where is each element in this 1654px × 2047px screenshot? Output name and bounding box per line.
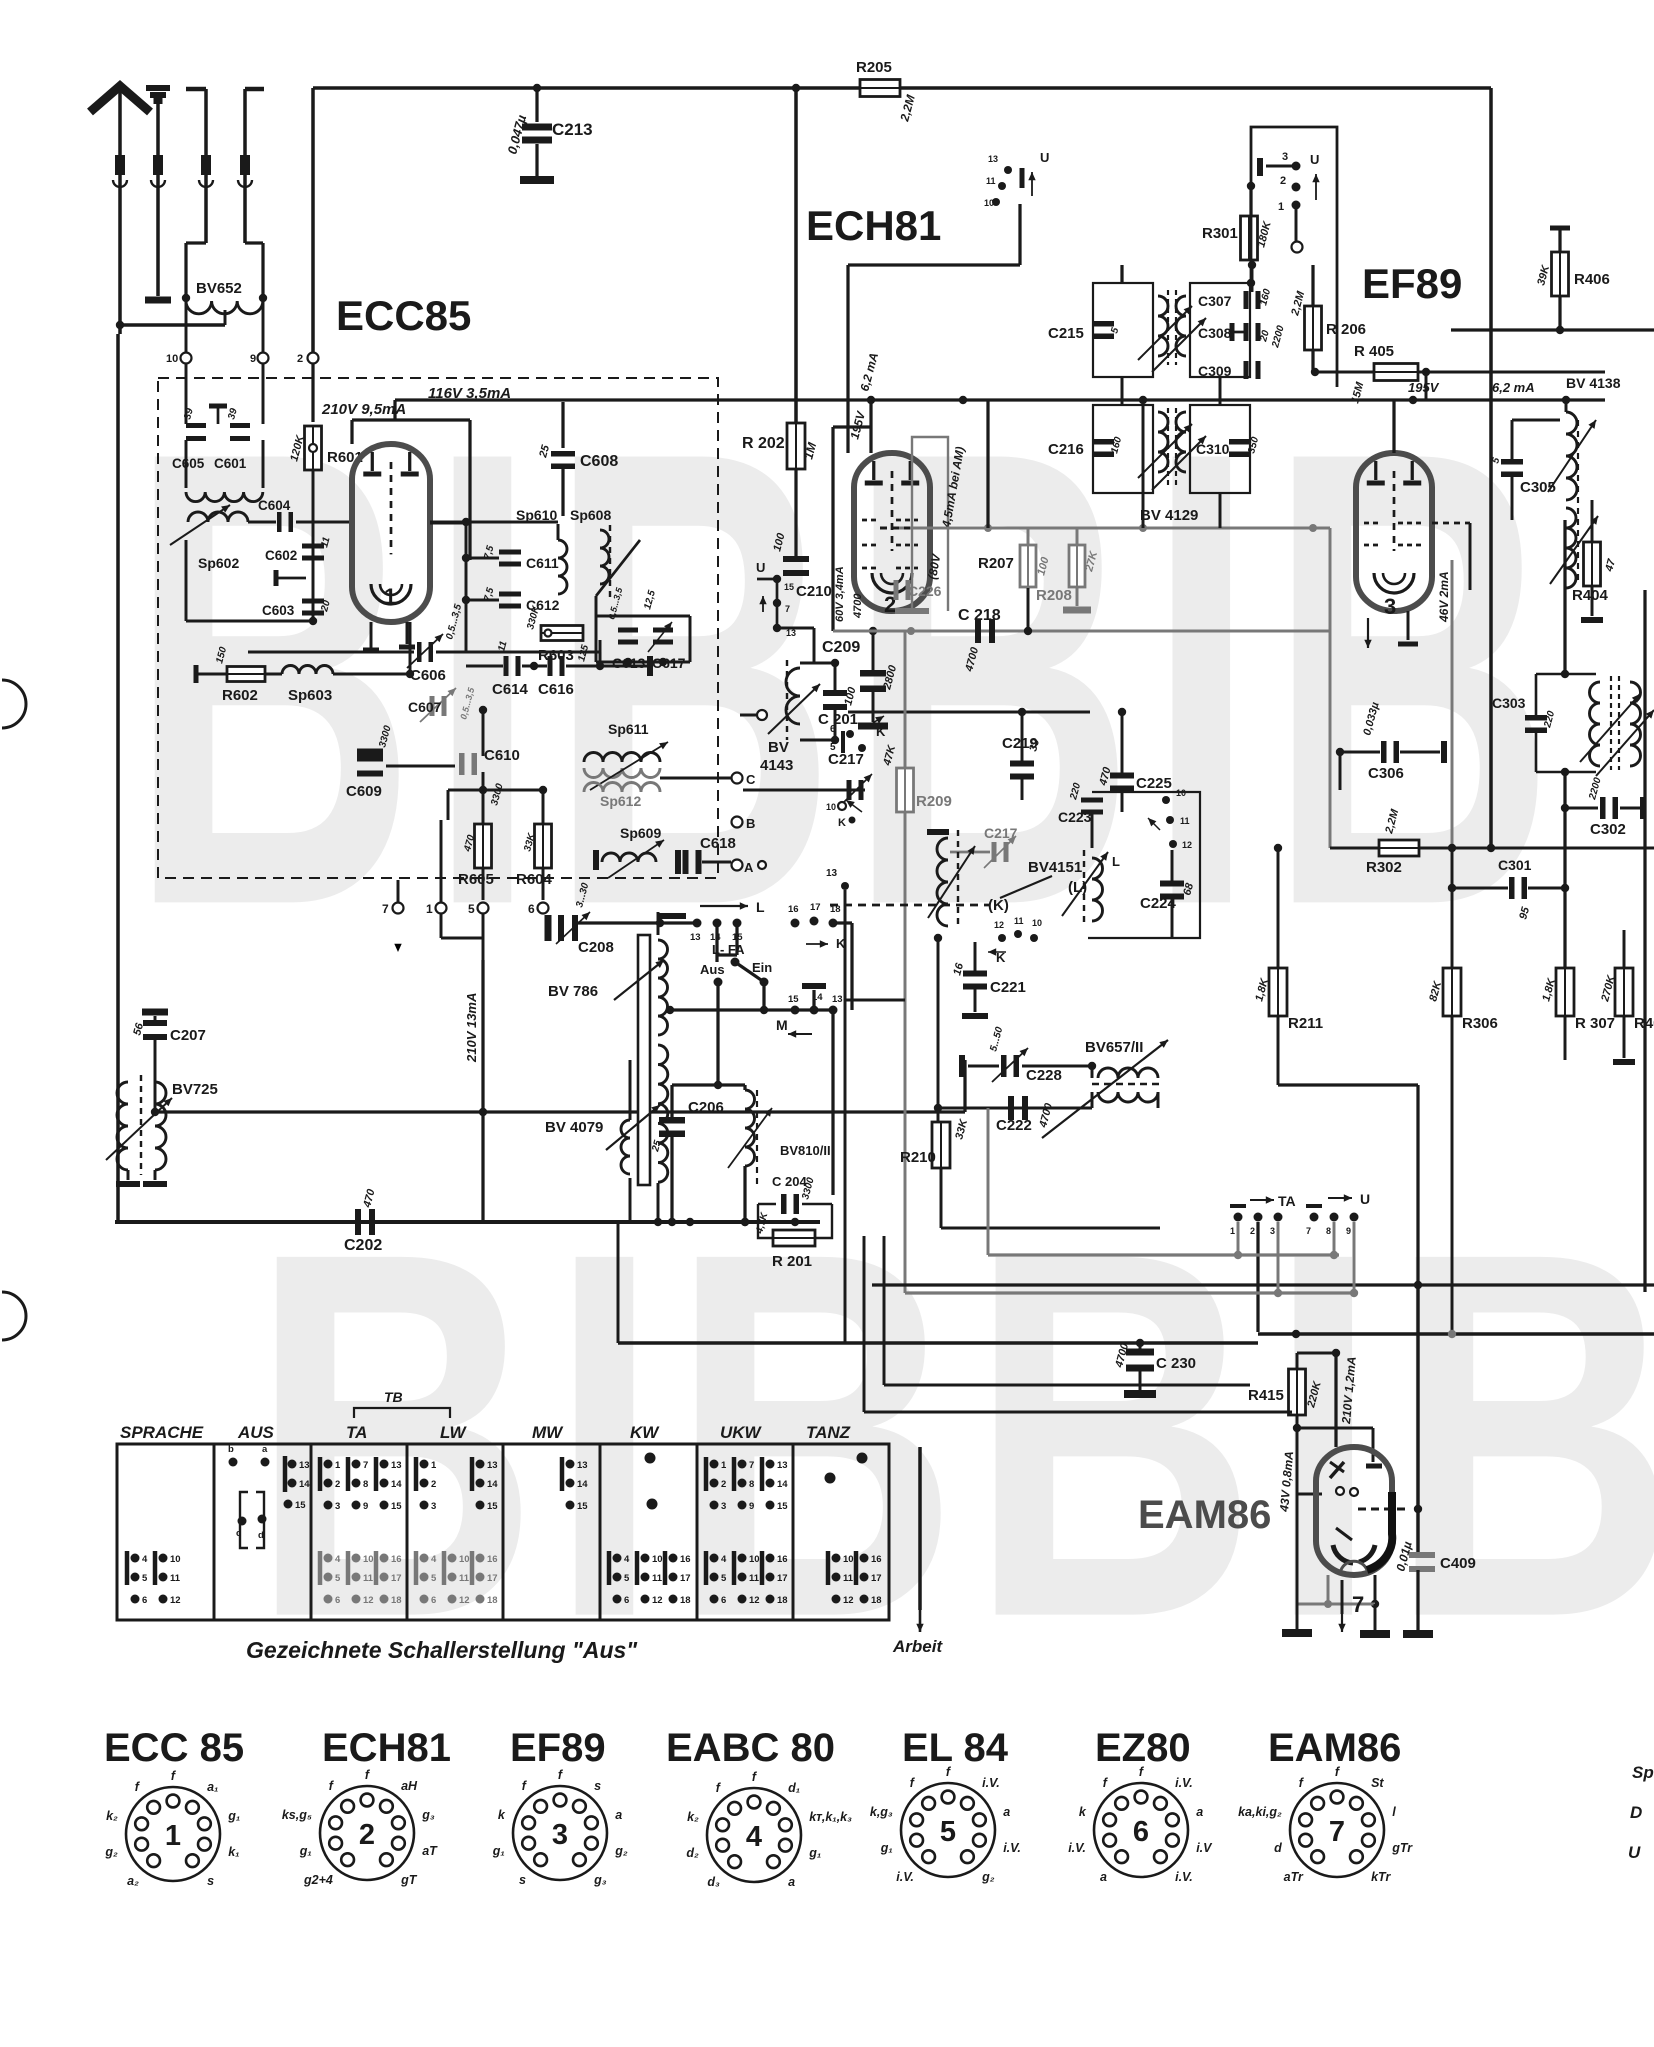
svg-text:15: 15 xyxy=(788,994,799,1005)
svg-text:8: 8 xyxy=(749,1479,754,1490)
resistor R202 xyxy=(787,423,805,469)
tube pinout ECC 85 xyxy=(104,1726,244,1888)
resistor R206 xyxy=(1311,265,1314,306)
svg-text:k₂: k₂ xyxy=(687,1810,699,1824)
svg-text:C609: C609 xyxy=(346,783,382,800)
svg-text:R210: R210 xyxy=(900,1149,936,1166)
svg-text:10: 10 xyxy=(826,802,836,812)
svg-text:St: St xyxy=(1371,1776,1384,1790)
tube EAM86 xyxy=(1316,1447,1392,1575)
svg-text:R605: R605 xyxy=(458,871,494,888)
svg-text:3: 3 xyxy=(431,1501,436,1512)
svg-text:3: 3 xyxy=(721,1501,726,1512)
socket pin 6 xyxy=(538,903,549,914)
svg-text:C 201: C 201 xyxy=(818,711,858,728)
svg-text:13: 13 xyxy=(299,1460,310,1471)
terminal A xyxy=(732,860,743,871)
capacitor C611 xyxy=(499,550,521,567)
svg-text:C210: C210 xyxy=(796,583,832,600)
svg-text:5: 5 xyxy=(431,1573,437,1584)
capacitor C618 xyxy=(683,850,702,874)
svg-text:i.V.: i.V. xyxy=(1003,1841,1021,1855)
svg-text:C225: C225 xyxy=(1136,775,1172,792)
wire gray bus 1293 xyxy=(905,1291,1354,1294)
svg-text:11: 11 xyxy=(1180,816,1190,826)
svg-text:11: 11 xyxy=(749,1573,760,1584)
svg-text:d₂: d₂ xyxy=(686,1846,699,1860)
svg-text:6: 6 xyxy=(721,1595,726,1606)
svg-text:11: 11 xyxy=(1014,916,1024,926)
coil BV4079 primary xyxy=(621,1120,630,1174)
wire C230 bus xyxy=(618,1341,1160,1345)
svg-text:R 206: R 206 xyxy=(1326,321,1366,338)
svg-text:EF89: EF89 xyxy=(510,1726,606,1770)
svg-text:EAM86: EAM86 xyxy=(1138,1493,1271,1537)
capacitor C215 xyxy=(1092,321,1114,339)
svg-text:C409: C409 xyxy=(1440,1555,1476,1572)
wire tube3 cathode xyxy=(1407,611,1410,640)
svg-text:Sp608: Sp608 xyxy=(570,507,611,523)
svg-text:Sp: Sp xyxy=(1632,1763,1654,1782)
svg-text:18: 18 xyxy=(777,1595,788,1606)
svg-text:13: 13 xyxy=(391,1460,402,1471)
svg-text:AUS: AUS xyxy=(237,1423,275,1442)
svg-text:4143: 4143 xyxy=(760,757,793,774)
svg-text:A: A xyxy=(744,860,754,875)
svg-text:C202: C202 xyxy=(344,1237,382,1254)
svg-text:C610: C610 xyxy=(484,747,520,764)
svg-text:C309: C309 xyxy=(1198,363,1232,379)
svg-text:13: 13 xyxy=(577,1460,588,1471)
wire tank bottom xyxy=(1091,1092,1094,1108)
svg-text:9: 9 xyxy=(749,1501,754,1512)
terminal C xyxy=(732,773,743,784)
svg-text:s: s xyxy=(207,1874,214,1888)
svg-text:17: 17 xyxy=(680,1573,691,1584)
svg-text:2: 2 xyxy=(297,353,303,365)
wire switch drops xyxy=(1237,1222,1240,1255)
svg-text:R306: R306 xyxy=(1462,1015,1498,1032)
svg-text:13: 13 xyxy=(487,1460,498,1471)
AUS contacts xyxy=(229,1458,238,1467)
coil Sp612 xyxy=(584,783,660,793)
capacitor C617 xyxy=(653,628,673,645)
svg-text:C301: C301 xyxy=(1498,857,1532,873)
svg-text:1: 1 xyxy=(1278,201,1284,213)
capacitor C310 xyxy=(1229,439,1251,457)
svg-text:ks,g₅: ks,g₅ xyxy=(282,1808,312,1822)
svg-text:4: 4 xyxy=(624,1554,630,1565)
svg-text:C209: C209 xyxy=(822,639,860,656)
wire anode lead xyxy=(1336,1427,1373,1430)
svg-text:12: 12 xyxy=(994,920,1004,930)
svg-text:R211: R211 xyxy=(1288,1015,1323,1032)
svg-text:Aus: Aus xyxy=(700,962,725,977)
svg-text:12: 12 xyxy=(652,1595,663,1606)
wire long output xyxy=(872,1283,1654,1286)
tube pinout EABC 80 xyxy=(666,1726,852,1889)
svg-text:i.V.: i.V. xyxy=(1175,1776,1193,1790)
svg-text:g₂: g₂ xyxy=(104,1845,118,1859)
svg-text:C601: C601 xyxy=(214,456,247,471)
svg-text:g₃: g₃ xyxy=(593,1873,607,1887)
input terminal 4 xyxy=(245,87,264,92)
capacitor C616 xyxy=(548,656,565,676)
svg-text:R301: R301 xyxy=(1202,225,1238,242)
svg-text:a: a xyxy=(1003,1805,1010,1819)
SPRACHE contacts xyxy=(125,1551,130,1585)
switch pins 10 11 12 xyxy=(1162,796,1170,804)
resistor R404 xyxy=(1591,500,1594,542)
svg-text:13: 13 xyxy=(786,628,796,638)
capacitor C603 xyxy=(302,599,324,616)
svg-text:13: 13 xyxy=(988,154,998,164)
svg-text:TB: TB xyxy=(384,1389,403,1405)
svg-text:9: 9 xyxy=(1346,1226,1351,1236)
capacitor C601 xyxy=(230,423,250,441)
capacitor C308 xyxy=(1244,323,1261,341)
svg-text:14: 14 xyxy=(777,1479,788,1490)
svg-text:c: c xyxy=(236,1528,241,1539)
svg-text:R209: R209 xyxy=(916,793,952,810)
wire IF input xyxy=(1120,265,1123,283)
svg-text:11: 11 xyxy=(986,176,996,186)
terminal B xyxy=(732,817,743,828)
switch pins 13 14 15 xyxy=(693,919,702,928)
oscillator coil BV4143 xyxy=(786,668,800,724)
svg-text:9: 9 xyxy=(250,353,256,365)
svg-text:i.V.: i.V. xyxy=(1068,1841,1086,1855)
svg-text:a₁: a₁ xyxy=(207,1780,218,1794)
svg-text:16: 16 xyxy=(788,904,799,915)
svg-text:15: 15 xyxy=(577,1501,588,1512)
svg-text:C228: C228 xyxy=(1026,1067,1062,1084)
wire tube3 top lead xyxy=(1392,400,1395,453)
wire tube3 down arrow xyxy=(1367,618,1369,648)
svg-text:g₁: g₁ xyxy=(227,1809,240,1823)
grid wire dashed tube1 xyxy=(296,521,352,524)
svg-text:R406: R406 xyxy=(1574,271,1610,288)
svg-text:6: 6 xyxy=(142,1595,147,1606)
capacitor C213 xyxy=(533,84,541,92)
svg-text:EZ80: EZ80 xyxy=(1095,1726,1191,1770)
svg-text:11: 11 xyxy=(843,1573,854,1584)
svg-text:UKW: UKW xyxy=(720,1423,763,1442)
wire gray bus 1255 xyxy=(988,1253,1339,1256)
svg-text:C207: C207 xyxy=(170,1027,206,1044)
resistor R601 xyxy=(311,364,314,422)
svg-text:4: 4 xyxy=(721,1554,727,1565)
coil Sp602 xyxy=(188,512,248,522)
capacitor C608 xyxy=(562,402,564,444)
svg-text:M: M xyxy=(776,1017,788,1033)
svg-text:a: a xyxy=(788,1875,795,1889)
svg-text:a₂: a₂ xyxy=(127,1874,139,1888)
svg-text:3: 3 xyxy=(1384,594,1396,619)
svg-text:R 405: R 405 xyxy=(1354,343,1394,360)
svg-text:Sp611: Sp611 xyxy=(608,721,649,737)
resistor R405 xyxy=(1374,364,1418,381)
svg-text:5: 5 xyxy=(830,742,836,753)
svg-text:D: D xyxy=(1630,1803,1642,1822)
svg-text:2: 2 xyxy=(721,1479,726,1490)
svg-text:R205: R205 xyxy=(856,59,892,76)
svg-text:R40: R40 xyxy=(1634,1015,1654,1032)
wire center drop xyxy=(1159,1228,1161,1343)
svg-text:16: 16 xyxy=(871,1554,882,1565)
capacitor C409 xyxy=(1416,1285,1419,1552)
svg-text:10: 10 xyxy=(984,198,994,208)
coil Sp610 winding xyxy=(558,540,567,594)
capacitor C224 xyxy=(1160,881,1184,900)
svg-text:12: 12 xyxy=(1182,840,1192,850)
svg-text:1: 1 xyxy=(384,584,396,609)
svg-text:2: 2 xyxy=(1280,175,1286,187)
svg-text:BV: BV xyxy=(768,739,789,756)
svg-text:10: 10 xyxy=(166,353,178,365)
svg-text:R404: R404 xyxy=(1572,587,1609,604)
svg-text:7: 7 xyxy=(1352,1592,1364,1617)
svg-text:Sp602: Sp602 xyxy=(198,555,239,571)
wire mid horizontal bus xyxy=(155,1110,965,1113)
svg-text:C303: C303 xyxy=(1492,695,1526,711)
svg-text:k₁: k₁ xyxy=(228,1845,239,1859)
svg-text:12: 12 xyxy=(749,1595,760,1606)
svg-text:C 204: C 204 xyxy=(772,1174,807,1189)
svg-text:16: 16 xyxy=(777,1554,788,1565)
svg-text:d: d xyxy=(1274,1841,1282,1855)
dashed screen box ECC85 xyxy=(158,378,718,878)
switch arrow L xyxy=(658,913,686,919)
svg-text:R302: R302 xyxy=(1366,859,1402,876)
switch M row xyxy=(670,1008,833,1011)
svg-text:1: 1 xyxy=(431,1460,437,1471)
svg-text:U: U xyxy=(1040,150,1049,165)
svg-text:195V: 195V xyxy=(1408,380,1440,395)
svg-text:a: a xyxy=(262,1444,268,1455)
transformer BV652 xyxy=(184,243,187,298)
capacitor C309 xyxy=(1244,361,1261,379)
svg-text:7: 7 xyxy=(749,1460,754,1471)
resistor R604 xyxy=(542,790,545,824)
svg-text:4: 4 xyxy=(142,1554,148,1565)
svg-text:46V 2mA: 46V 2mA xyxy=(1437,571,1451,623)
svg-text:15: 15 xyxy=(784,582,794,592)
svg-text:14: 14 xyxy=(391,1479,402,1490)
switch pins 16 17 18 xyxy=(791,919,800,928)
svg-text:C221: C221 xyxy=(990,979,1026,996)
svg-text:6: 6 xyxy=(1133,1816,1149,1848)
svg-text:BV 4129: BV 4129 xyxy=(1140,507,1198,524)
UKW contacts xyxy=(704,1457,709,1491)
svg-text:C310: C310 xyxy=(1196,441,1230,457)
svg-text:8: 8 xyxy=(1326,1226,1331,1236)
wire R605 R604 top xyxy=(448,789,543,792)
svg-text:R 201: R 201 xyxy=(772,1253,812,1270)
svg-text:BV 4138: BV 4138 xyxy=(1566,375,1621,391)
svg-text:C226: C226 xyxy=(908,583,942,599)
svg-text:2: 2 xyxy=(431,1479,436,1490)
svg-text:a: a xyxy=(1100,1870,1107,1884)
svg-text:l: l xyxy=(1392,1805,1396,1819)
svg-text:5: 5 xyxy=(468,902,475,916)
L tank frame xyxy=(1088,792,1200,938)
svg-text:g₁: g₁ xyxy=(492,1844,505,1858)
core bar transformer xyxy=(638,935,650,1185)
svg-text:TANZ: TANZ xyxy=(806,1423,851,1442)
svg-text:aH: aH xyxy=(401,1779,418,1793)
svg-text:g2+4: g2+4 xyxy=(303,1873,333,1887)
svg-text:d₁: d₁ xyxy=(788,1781,800,1795)
wire transformer taps xyxy=(657,912,660,935)
wire tube1 heater bars xyxy=(370,622,373,648)
Arbeit arrow xyxy=(918,1447,922,1610)
svg-text:14: 14 xyxy=(487,1479,498,1490)
resistor R602 xyxy=(194,665,199,683)
svg-text:gTr: gTr xyxy=(1391,1841,1413,1855)
svg-text:5: 5 xyxy=(721,1573,727,1584)
svg-text:4700: 4700 xyxy=(852,593,864,619)
wire anode supply EAM86 xyxy=(1334,1353,1337,1447)
coil BV4079 xyxy=(658,1045,668,1182)
resistor R406 xyxy=(1550,226,1570,231)
svg-text:17: 17 xyxy=(810,902,821,913)
svg-text:7: 7 xyxy=(363,1460,368,1471)
IF can lower right box xyxy=(1190,405,1250,493)
wire C614 C616 row xyxy=(466,665,503,668)
svg-text:U: U xyxy=(1628,1843,1641,1862)
svg-text:210V 13mA: 210V 13mA xyxy=(464,993,479,1063)
svg-text:R207: R207 xyxy=(978,555,1014,572)
svg-text:SPRACHE: SPRACHE xyxy=(120,1423,204,1442)
svg-text:1: 1 xyxy=(426,902,433,916)
svg-text:g₁: g₁ xyxy=(299,1844,312,1858)
svg-text:10: 10 xyxy=(459,1554,470,1565)
wire right vertical xyxy=(1643,590,1646,1292)
svg-text:g₂: g₂ xyxy=(614,1844,628,1858)
svg-text:18: 18 xyxy=(487,1595,498,1606)
svg-text:12: 12 xyxy=(363,1595,374,1606)
IF can lower left box xyxy=(1093,405,1153,493)
svg-text:16: 16 xyxy=(391,1554,402,1565)
wire U switch net xyxy=(848,263,1020,266)
watermark row 1 xyxy=(128,317,1566,1040)
switch K pin row2 xyxy=(838,802,846,810)
wire 210V feed down xyxy=(481,960,484,1222)
svg-text:k: k xyxy=(1079,1805,1087,1819)
capacitor C613 xyxy=(618,628,638,645)
svg-text:R604: R604 xyxy=(516,871,553,888)
svg-text:U: U xyxy=(756,560,765,575)
coil output right xyxy=(1590,682,1601,766)
svg-text:BV4151: BV4151 xyxy=(1028,859,1082,876)
svg-text:ka,ki,g₂: ka,ki,g₂ xyxy=(1238,1805,1282,1819)
tube3 grid dashes xyxy=(1364,522,1378,525)
svg-text:7: 7 xyxy=(785,604,790,614)
svg-text:11: 11 xyxy=(459,1573,470,1584)
svg-text:Sp609: Sp609 xyxy=(620,825,661,841)
switch pins row 12 11 10 xyxy=(998,934,1006,942)
svg-text:C: C xyxy=(746,772,756,787)
wire 195V rail xyxy=(867,396,875,404)
svg-text:C 230: C 230 xyxy=(1156,1355,1196,1372)
wire R302 node verticals xyxy=(1563,520,1566,674)
svg-text:k,g₃: k,g₃ xyxy=(870,1805,893,1819)
svg-text:18: 18 xyxy=(871,1595,882,1606)
svg-text:s: s xyxy=(594,1779,601,1793)
svg-text:15: 15 xyxy=(391,1501,402,1512)
svg-text:1: 1 xyxy=(721,1460,727,1471)
svg-text:g₂: g₂ xyxy=(981,1870,995,1884)
coil Sp603 xyxy=(265,673,282,676)
svg-text:BV657/II: BV657/II xyxy=(1085,1039,1143,1056)
svg-text:Sp612: Sp612 xyxy=(600,793,641,809)
resistor R307 xyxy=(1556,968,1574,1016)
svg-text:BV810/II: BV810/II xyxy=(780,1143,831,1158)
svg-text:5: 5 xyxy=(142,1573,148,1584)
svg-text:s: s xyxy=(519,1873,526,1887)
svg-text:Arbeit: Arbeit xyxy=(892,1637,943,1656)
svg-text:5: 5 xyxy=(940,1816,956,1848)
svg-text:18: 18 xyxy=(680,1595,691,1606)
svg-text:10: 10 xyxy=(363,1554,374,1565)
ground stub C602 xyxy=(274,570,279,586)
svg-text:C611: C611 xyxy=(526,555,559,571)
wire tube2 anode frame xyxy=(831,427,834,631)
capacitor C201 xyxy=(823,690,847,710)
capacitor C606 variable xyxy=(417,642,433,662)
svg-text:13: 13 xyxy=(832,994,843,1005)
socket pin 7 xyxy=(393,903,404,914)
wire bottom rail xyxy=(115,1220,820,1224)
wire C605 leads xyxy=(185,364,188,424)
wire tube1 grid dashed xyxy=(430,522,470,525)
svg-text:aT: aT xyxy=(422,1844,438,1858)
socket pin 1 xyxy=(436,903,447,914)
svg-text:2: 2 xyxy=(335,1479,340,1490)
svg-text:C614: C614 xyxy=(492,681,529,698)
wire osc net xyxy=(848,711,1090,714)
svg-text:14: 14 xyxy=(577,1479,588,1490)
svg-text:60V 3,4mA: 60V 3,4mA xyxy=(834,566,846,622)
resistor R201 xyxy=(773,1230,815,1246)
svg-text:kᴛ,k₁,k₃: kᴛ,k₁,k₃ xyxy=(809,1810,852,1824)
capacitor C604 xyxy=(277,512,293,532)
capacitor C609 xyxy=(357,749,383,756)
resistor R605 xyxy=(482,790,485,824)
svg-text:16: 16 xyxy=(487,1554,498,1565)
svg-text:15: 15 xyxy=(777,1501,788,1512)
capacitor C305 xyxy=(1501,459,1523,477)
TANZ contacts xyxy=(857,1453,868,1464)
wire grid to BV4143 xyxy=(777,627,814,630)
resistor R408 edge xyxy=(1615,968,1633,1016)
wire top supply rail xyxy=(313,86,1491,90)
svg-text:i.V: i.V xyxy=(1196,1841,1213,1855)
svg-text:17: 17 xyxy=(391,1573,402,1584)
svg-text:17: 17 xyxy=(487,1573,498,1584)
coil antenna primary xyxy=(185,440,188,488)
wire lower bus right xyxy=(1258,1332,1654,1336)
KW contacts xyxy=(645,1453,656,1464)
svg-text:L: L xyxy=(756,899,765,915)
punch hole upper xyxy=(2,680,26,728)
svg-text:6: 6 xyxy=(528,902,535,916)
coil BV786 xyxy=(658,940,668,1035)
wire C208 to switch xyxy=(578,921,697,924)
svg-text:1: 1 xyxy=(165,1820,181,1852)
svg-text:KW: KW xyxy=(630,1423,660,1442)
